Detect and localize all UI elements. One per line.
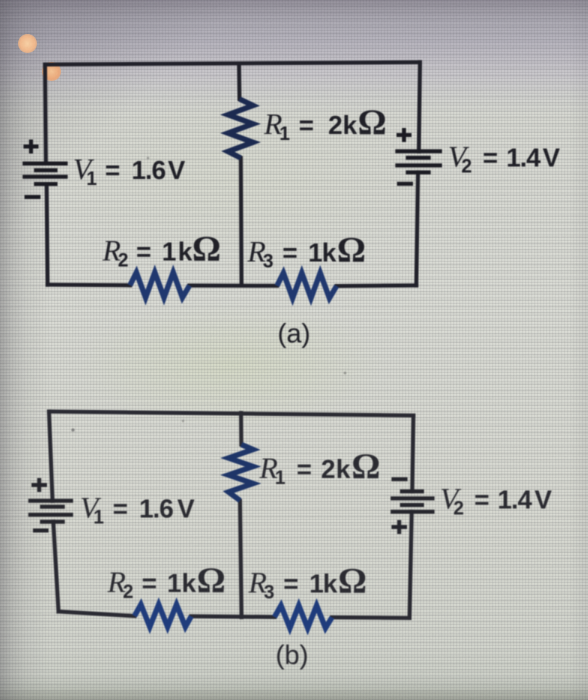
svg-text:V2= 1.4 V: V2= 1.4 V (448, 140, 561, 177)
svg-text:V1= 1.6 V: V1= 1.6 V (80, 491, 195, 528)
svg-text:V1= 1.6 V: V1= 1.6 V (73, 153, 186, 190)
svg-text:R3= 1 kΩ: R3= 1 kΩ (248, 561, 367, 604)
svg-text:(a): (a) (278, 319, 311, 349)
svg-text:R2= 1 kΩ: R2= 1 kΩ (107, 560, 226, 603)
svg-text:V2= 1.4 V: V2= 1.4 V (440, 483, 552, 520)
svg-text:R1= 2 kΩ: R1= 2 kΩ (263, 102, 387, 145)
svg-text:R1= 2 kΩ: R1= 2 kΩ (259, 446, 381, 489)
svg-text:(b): (b) (276, 640, 309, 670)
svg-text:R3= 1 kΩ: R3= 1 kΩ (247, 229, 366, 272)
svg-text:R2= 1 kΩ: R2= 1 kΩ (102, 229, 222, 272)
